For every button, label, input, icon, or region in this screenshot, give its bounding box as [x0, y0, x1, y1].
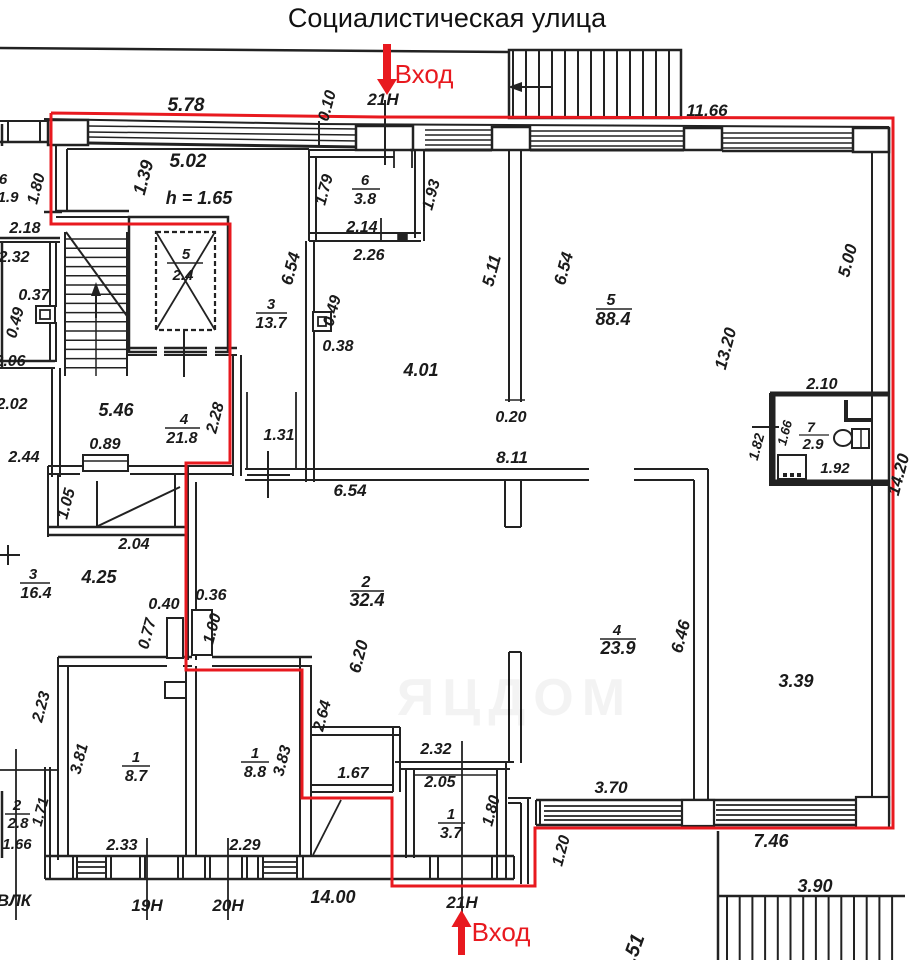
svg-text:13.7: 13.7	[255, 315, 287, 332]
svg-text:8.11: 8.11	[496, 448, 528, 467]
svg-text:2.14: 2.14	[345, 219, 377, 236]
svg-text:3: 3	[29, 566, 38, 583]
svg-text:0.38: 0.38	[322, 338, 353, 355]
svg-text:2.29: 2.29	[228, 837, 260, 854]
svg-text:23.9: 23.9	[599, 638, 635, 658]
svg-text:19Н: 19Н	[131, 896, 163, 915]
svg-text:2: 2	[12, 797, 22, 814]
svg-text:5.46: 5.46	[98, 400, 134, 420]
svg-text:3.70: 3.70	[594, 778, 628, 797]
svg-text:21Н: 21Н	[366, 90, 399, 109]
svg-text:20Н: 20Н	[211, 896, 244, 915]
svg-text:2.05: 2.05	[423, 774, 456, 791]
svg-text:8.8: 8.8	[244, 764, 266, 781]
svg-text:6.54: 6.54	[333, 481, 367, 500]
svg-text:3.39: 3.39	[778, 671, 813, 691]
svg-text:2.02: 2.02	[0, 396, 28, 413]
svg-text:Вход: Вход	[472, 917, 531, 947]
svg-text:4: 4	[612, 622, 622, 639]
svg-text:11.66: 11.66	[686, 101, 728, 120]
svg-text:1.9: 1.9	[0, 189, 19, 206]
svg-text:2.26: 2.26	[352, 247, 384, 264]
svg-text:7.46: 7.46	[753, 831, 789, 851]
svg-text:2.4: 2.4	[172, 267, 195, 284]
svg-text:0.20: 0.20	[495, 409, 526, 426]
svg-text:1: 1	[132, 749, 140, 766]
svg-text:Вход: Вход	[395, 59, 454, 89]
svg-text:1.66: 1.66	[2, 836, 32, 853]
svg-text:14.00: 14.00	[310, 887, 355, 907]
svg-text:2.32: 2.32	[419, 741, 451, 758]
svg-text:1: 1	[447, 806, 455, 823]
svg-text:Социалистическая улица: Социалистическая улица	[288, 3, 607, 33]
svg-text:2.9: 2.9	[802, 436, 825, 453]
svg-text:ВЛК: ВЛК	[0, 891, 33, 910]
svg-text:5.78: 5.78	[168, 95, 205, 116]
svg-text:1: 1	[251, 745, 259, 762]
svg-text:5: 5	[182, 246, 191, 263]
svg-text:88.4: 88.4	[595, 309, 630, 329]
svg-text:6: 6	[361, 172, 370, 189]
svg-text:8.7: 8.7	[125, 768, 148, 785]
svg-text:3.7: 3.7	[440, 825, 463, 842]
svg-text:0.37: 0.37	[18, 287, 50, 304]
svg-text:16.4: 16.4	[20, 585, 51, 602]
svg-text:1.92: 1.92	[820, 460, 850, 477]
svg-text:6: 6	[0, 171, 8, 188]
svg-text:2.06: 2.06	[0, 353, 26, 370]
svg-text:2.18: 2.18	[8, 220, 40, 237]
svg-text:5.02: 5.02	[170, 151, 207, 172]
svg-text:4: 4	[179, 411, 189, 428]
svg-text:2.10: 2.10	[805, 376, 837, 393]
svg-text:21Н: 21Н	[445, 893, 478, 912]
svg-text:2.8: 2.8	[7, 815, 30, 832]
svg-text:4.01: 4.01	[402, 360, 438, 380]
svg-text:1.67: 1.67	[337, 765, 369, 782]
svg-text:1.31: 1.31	[263, 427, 294, 444]
svg-text:3.8: 3.8	[354, 191, 376, 208]
svg-text:2.33: 2.33	[105, 837, 137, 854]
svg-text:21.8: 21.8	[165, 430, 197, 447]
svg-text:2.44: 2.44	[7, 449, 39, 466]
svg-text:5: 5	[607, 292, 617, 309]
svg-text:0.40: 0.40	[148, 596, 179, 613]
svg-text:0.36: 0.36	[195, 587, 226, 604]
svg-text:2: 2	[361, 574, 371, 591]
svg-text:2.32: 2.32	[0, 249, 30, 266]
svg-text:32.4: 32.4	[349, 590, 384, 610]
svg-text:3.90: 3.90	[797, 876, 832, 896]
svg-text:3: 3	[267, 296, 276, 313]
svg-text:h = 1.65: h = 1.65	[166, 188, 234, 208]
svg-text:2.04: 2.04	[117, 536, 149, 553]
svg-text:7: 7	[807, 419, 816, 435]
svg-text:0.89: 0.89	[89, 436, 120, 453]
svg-text:ЯЦДОМ: ЯЦДОМ	[397, 669, 633, 727]
svg-text:4.25: 4.25	[80, 567, 117, 587]
